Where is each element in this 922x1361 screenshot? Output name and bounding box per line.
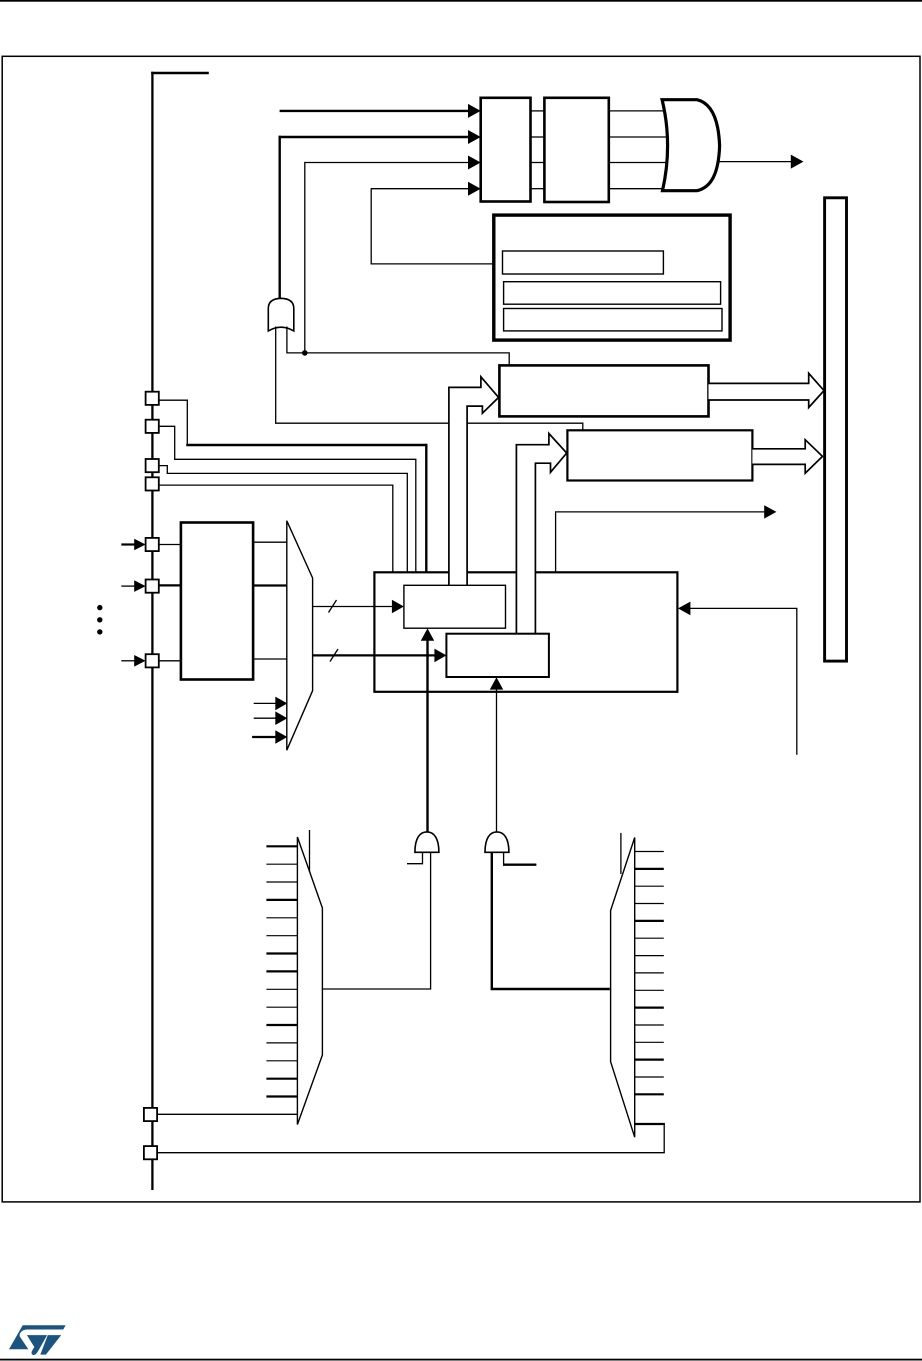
wire GA input right leg from mux M2L	[322, 852, 430, 990]
ST logo	[9, 1325, 66, 1355]
mux M1	[287, 521, 313, 750]
box R2	[567, 430, 752, 480]
box T2	[544, 98, 608, 202]
wire pad P8 to mux M2L	[157, 1113, 298, 1115]
wire mux M1 output bus1 to box CA	[313, 606, 394, 608]
box R1	[499, 365, 708, 416]
bus1 width slash	[329, 600, 337, 613]
wire w4 from pad P4	[159, 485, 393, 572]
pad P5	[146, 538, 159, 551]
arrow from gate GA into box CA bottom	[426, 640, 428, 833]
box CA	[404, 585, 506, 628]
register R3	[504, 309, 722, 331]
wire G2 input left leg	[276, 327, 583, 431]
pad P6	[146, 580, 159, 593]
wire LB to mux M1 line2	[253, 584, 287, 586]
wire pad P7 to box LB	[159, 660, 181, 662]
wire G2 output vertical	[279, 136, 281, 301]
pad P7	[146, 654, 159, 667]
wire w2 from pad P2	[159, 426, 416, 572]
gate GB (AND, output up)	[485, 832, 509, 852]
gate GA (AND, output up)	[415, 832, 439, 852]
input arrow into pad P7	[121, 660, 134, 662]
wire w1 from pad P1	[159, 400, 427, 572]
wire w3 from pad P3	[159, 466, 408, 573]
input line L4 into box T1	[371, 188, 470, 190]
left box LB	[181, 523, 253, 680]
wire mux M1 output bus2 to box CB2	[313, 654, 436, 656]
pad P1	[146, 392, 159, 405]
input arrow into pad P5	[121, 543, 134, 545]
page bottom rule	[0, 1359, 922, 1361]
input arrow into pad P6	[121, 585, 134, 587]
wire pad P9 to mux M2R	[157, 1124, 664, 1153]
pad P2	[146, 420, 159, 433]
input line L2 into box T1 from gate G2 output	[279, 136, 471, 138]
wire arrow into center box CC right edge	[689, 608, 797, 754]
left bus vertical	[151, 72, 153, 1190]
input arrow C into mux M1	[252, 736, 276, 738]
bus2 width slash	[330, 649, 338, 662]
mux M2R input ticks	[634, 852, 664, 1095]
mux M2R bottom tick	[634, 1123, 665, 1125]
center box CC	[374, 572, 677, 692]
open arrow OA3 from R1 to bar	[709, 373, 825, 407]
box CB2	[446, 634, 549, 677]
mux M2L	[297, 837, 322, 1125]
input line L1 into box T1	[280, 110, 470, 112]
gate G1 (OR, output right)	[662, 100, 720, 191]
page top rule	[0, 0, 922, 2]
open arrow OA1 from box CA to box R1	[449, 377, 499, 586]
ellipsis dots	[97, 605, 102, 610]
register R2	[504, 282, 721, 305]
mux M2L input ticks	[266, 846, 298, 1096]
wire pad P6 to box LB	[159, 584, 181, 586]
register box RB	[494, 215, 730, 340]
pad P9	[144, 1146, 157, 1159]
register R1	[503, 251, 664, 274]
wire G1 output	[717, 161, 791, 163]
wire pad P5 to box LB	[159, 544, 181, 546]
pad P8	[144, 1108, 157, 1121]
open arrow OA2 from box CB2 to box R2	[516, 434, 566, 634]
open arrow OA4 from R2 to bar	[752, 440, 822, 474]
mux M2R select stub	[620, 833, 622, 874]
input line L3 into box T1	[305, 162, 470, 164]
wire GB input left leg from mux M2R	[492, 852, 610, 990]
wire GA input left stub	[407, 852, 423, 864]
gate G2 (OR, output up)	[268, 298, 294, 331]
node J1 junction dot	[302, 350, 308, 356]
wire arrow from CC top to right	[556, 512, 765, 572]
wire G2 input right leg	[287, 327, 509, 367]
wire L3 vertical to node J1	[304, 162, 306, 353]
input arrow A into mux M1	[254, 702, 277, 704]
arrow from gate GB into box CB2 bottom	[496, 689, 498, 833]
wires T2 to gate G1	[609, 111, 670, 189]
wires T1 to T2	[531, 111, 545, 189]
wire GB input right stub	[504, 852, 537, 865]
pad P3	[146, 459, 159, 472]
box T1	[481, 98, 531, 202]
wire LB to mux M1 line1	[253, 541, 287, 543]
wire L4 vertical to register R1	[371, 188, 502, 264]
mux M2L select stub	[309, 830, 311, 872]
input arrow B into mux M1	[254, 717, 277, 719]
pad P4	[146, 477, 159, 490]
bus bar BR	[825, 198, 847, 661]
bus stub top horizontal	[151, 72, 209, 75]
mux M2R	[611, 838, 635, 1138]
wire LB to mux M1 line3	[253, 658, 287, 660]
